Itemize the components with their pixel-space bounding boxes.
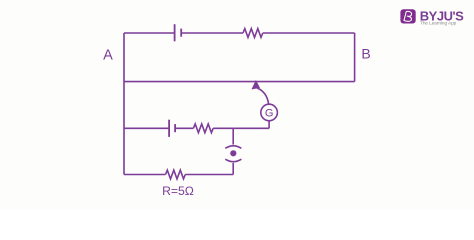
svg-text:A: A — [103, 48, 113, 64]
wire battery to rheostat — [181, 32, 243, 34]
resistor (secondary branch zigzag) — [193, 124, 213, 133]
wire rheostat to top-right corner — [263, 32, 355, 34]
wire top horizontal left segment (corner to battery) — [124, 32, 174, 34]
wire bottom left segment (corner to resistor R) — [124, 174, 166, 176]
resistor (top rheostat zigzag) — [243, 29, 263, 38]
battery (secondary cell) — [169, 120, 175, 137]
wire secondary branch right segment (key junction to G) — [233, 127, 269, 129]
wire junction down to tapping key — [232, 128, 234, 144]
wire galvanometer down to secondary branch — [268, 121, 270, 129]
wire right vertical (B side) — [354, 33, 356, 82]
wire secondary branch left segment (A-side vertical to cell) — [124, 127, 169, 129]
galvanometer G — [261, 104, 278, 121]
wire AB potentiometer wire (second horizontal) — [124, 81, 355, 83]
svg-text:R=5Ω: R=5Ω — [162, 184, 194, 198]
svg-text:G: G — [265, 108, 274, 120]
wire resistor to key junction — [213, 127, 233, 129]
resistor R (R=5 ohm zigzag) — [166, 170, 186, 179]
wire bottom right segment (key to resistor R) — [185, 174, 233, 176]
wire top-left vertical (A side, from top wire down to bottom wire) — [123, 33, 125, 175]
svg-text:B: B — [361, 46, 370, 62]
wire tapping key down to bottom wire — [232, 163, 234, 175]
svg-text:The Learning App: The Learning App — [420, 21, 457, 26]
battery (primary cell, top branch) — [175, 24, 182, 41]
BYJU'S logo icon (rounded square with B mark) — [400, 9, 415, 23]
wire cell to resistor — [175, 127, 193, 129]
jockey arrow (curved, touching wire AB) — [252, 81, 269, 104]
tapping key (contact symbol: two arcs with centre dot) — [225, 146, 241, 162]
